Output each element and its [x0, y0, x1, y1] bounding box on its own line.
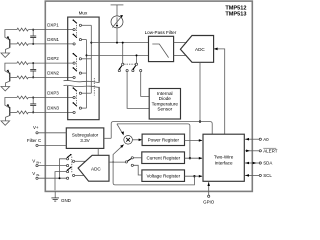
resistor R3b (DXN3) — [17, 111, 28, 114]
wire DXN3 — [28, 111, 73, 113]
LPF curve — [152, 44, 168, 58]
wire LPF to ADC lower — [174, 54, 187, 56]
svg-text:Voltage Register: Voltage Register — [146, 173, 180, 178]
node voltage register tap — [193, 175, 195, 177]
ADC input contact B — [73, 174, 75, 176]
switch S8 — [132, 63, 142, 72]
wire ADC2 output — [109, 161, 125, 163]
wire DXP1 — [28, 29, 73, 31]
svg-text:SDA: SDA — [263, 161, 272, 166]
mux switch DXP1 — [73, 19, 92, 30]
resistor R2b (DXN2) — [17, 76, 28, 79]
wire contact3 to GND rail — [55, 172, 67, 191]
mux switch DXN3 — [73, 102, 87, 113]
power register — [142, 134, 184, 145]
wire subregulator to ADC2 — [97, 148, 99, 155]
svg-text:Two-Wire: Two-Wire — [214, 155, 234, 160]
resistor R2a (DXP2) — [17, 62, 28, 65]
wire contact B to ADC2 — [75, 174, 84, 176]
wire upper bus to LPF — [91, 42, 148, 44]
ground for Q3 — [1, 121, 10, 125]
contact 3 — [67, 171, 69, 173]
pin SCL — [244, 173, 272, 178]
wire DXP2 — [28, 62, 73, 64]
svg-text:Interface: Interface — [215, 161, 233, 166]
node ADC result — [199, 120, 201, 122]
svg-text:Filter C: Filter C — [27, 138, 42, 143]
wire DXN2 — [28, 76, 73, 78]
svg-text:TMP513: TMP513 — [225, 11, 246, 17]
mux switch DXN1 — [73, 34, 87, 45]
svg-text:DXN2: DXN2 — [47, 71, 59, 76]
wire diagonal into multiplier lower — [113, 147, 121, 155]
wire switch to voltage register — [133, 165, 142, 175]
wire current register to TWI — [185, 157, 203, 159]
svg-text:Mux: Mux — [79, 10, 88, 15]
gang dash pair3 — [76, 93, 78, 105]
svg-text:ALERT: ALERT — [263, 149, 278, 154]
capacitor C2 — [30, 62, 36, 78]
node DXN bus junction — [86, 54, 88, 56]
current register — [142, 152, 185, 164]
mux switch DXN2 — [73, 67, 87, 78]
svg-text:ADC: ADC — [195, 47, 205, 52]
ground for Q2 — [1, 87, 10, 91]
wire W1 lower loop — [113, 154, 194, 185]
LPF box — [149, 36, 174, 61]
contact 2 — [67, 165, 69, 167]
svg-text:GPIO: GPIO — [203, 200, 215, 205]
svg-text:A0: A0 — [263, 137, 269, 142]
pin ALERT — [244, 148, 277, 153]
svg-text:GND: GND — [61, 198, 71, 203]
transistor Q1 — [5, 30, 17, 53]
svg-text:ADC: ADC — [91, 166, 101, 171]
svg-text:Power Register: Power Register — [148, 138, 180, 143]
svg-text:IN+: IN+ — [36, 161, 41, 165]
voltage register — [142, 170, 185, 182]
wire S7 to temp sensor — [127, 72, 149, 109]
resistor R1a (DXP1) — [17, 28, 28, 31]
wire ADC right with arrow — [214, 49, 225, 134]
svg-text:Sensor: Sensor — [157, 107, 172, 112]
gang dash S7-S8 — [124, 63, 135, 65]
ADC input contact A — [73, 160, 75, 162]
svg-text:DXP2: DXP2 — [47, 56, 59, 61]
wire diagonal into multiplier upper — [117, 124, 123, 134]
chip boundary U1 TMP512/TMP513 — [45, 1, 252, 191]
contact 1 — [67, 158, 69, 160]
wire stub switch S7 — [122, 43, 124, 64]
svg-text:DXN3: DXN3 — [47, 106, 59, 111]
wire switch to current register — [133, 157, 141, 159]
wire DXP3 — [28, 97, 73, 99]
svg-text:DXP3: DXP3 — [47, 91, 59, 96]
svg-text:SCL: SCL — [263, 173, 272, 178]
mux switch DXP2 — [73, 53, 92, 64]
mux switch DXP3 — [73, 87, 92, 98]
capacitor C3 — [30, 97, 36, 114]
capacitor C1 — [30, 29, 36, 45]
wire LPF to ADC upper — [174, 42, 187, 44]
transistor Q2 — [5, 63, 17, 86]
mux box lower — [68, 86, 99, 120]
svg-text:Subregulator: Subregulator — [72, 132, 99, 137]
node DXP bus junction — [90, 42, 92, 44]
wire multiplier to power register — [132, 139, 141, 141]
switch S7 — [118, 63, 128, 72]
wire lower bus to LPF — [87, 54, 149, 56]
svg-text:3.3V: 3.3V — [80, 138, 90, 143]
resistor R3a (DXP3) — [17, 96, 28, 99]
wire S8 to temp sensor — [141, 72, 150, 97]
wire contact1 loop to VIN- — [60, 159, 67, 178]
svg-text:DXP1: DXP1 — [47, 23, 59, 28]
wire DXN1 — [28, 43, 73, 45]
pin A0 — [244, 137, 269, 142]
wire W1 left segment joins subregulator output — [111, 122, 200, 139]
arm B — [67, 167, 71, 170]
svg-text:DXN1: DXN1 — [47, 37, 59, 42]
gang dash pair2 — [76, 58, 78, 70]
wire stub switch S8 — [136, 55, 138, 63]
gang dash VIN switches — [71, 157, 73, 173]
wire power register to TWI — [185, 139, 203, 141]
gang dash pair1 — [76, 25, 78, 37]
wire W1 to TWI — [200, 122, 212, 135]
node current tap — [189, 157, 191, 159]
svg-text:IN-: IN- — [36, 173, 40, 177]
wire subregulator output — [104, 137, 111, 139]
pin SDA — [244, 161, 272, 166]
DXP bus vertical — [90, 25, 92, 93]
contact 4 — [67, 177, 69, 179]
transistor Q3 — [5, 98, 17, 121]
svg-text:V: V — [32, 158, 35, 163]
node current source / bus — [116, 42, 118, 44]
ground for Q1 — [1, 53, 10, 57]
svg-text:V+: V+ — [33, 125, 39, 130]
wire contact A to ADC2 — [75, 160, 86, 162]
resistor R1b (DXN1) — [17, 42, 28, 45]
wire voltage register to TWI — [185, 175, 203, 177]
mux box upper — [68, 17, 99, 82]
wire ADC bottom down — [199, 62, 201, 121]
svg-text:Current Register: Current Register — [146, 155, 180, 160]
DXN bus vertical — [86, 40, 88, 109]
svg-text:V: V — [32, 171, 35, 176]
arm A — [67, 155, 71, 158]
svg-text:Low-Pass Filter: Low-Pass Filter — [145, 30, 177, 35]
